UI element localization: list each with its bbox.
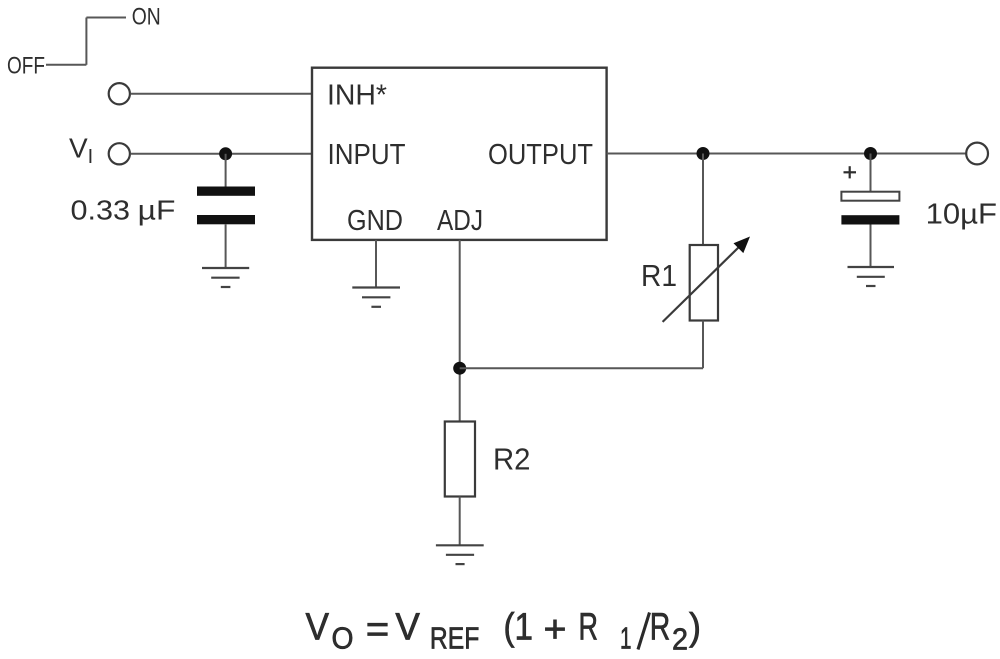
resistor R2 body (445, 422, 475, 497)
svg-text:R: R (579, 607, 599, 649)
svg-text:=: = (366, 609, 390, 651)
svg-text:0.33: 0.33 (71, 195, 131, 226)
wire switch OFF segment (46, 64, 86, 66)
wire C1 to ground (225, 224, 227, 268)
svg-text:REF: REF (430, 621, 479, 656)
svg-text:INPUT: INPUT (328, 139, 406, 171)
terminal VI input (109, 143, 130, 164)
ground R2 (436, 545, 484, 564)
formula slash R1/R2 (638, 613, 650, 650)
svg-text:OUTPUT: OUTPUT (488, 139, 593, 171)
ground U1 GND (352, 288, 400, 307)
svg-text:O: O (332, 621, 354, 656)
capacitor C1 bottom plate (197, 215, 255, 224)
svg-text:V: V (306, 607, 330, 649)
wire switch ON segment (86, 17, 126, 19)
wire INH terminal to U1 (131, 93, 313, 95)
node input junction (219, 147, 232, 160)
resistor R1 arrowhead (734, 237, 751, 254)
wire R1 bottom to ADJ node (vertical) (702, 321, 704, 369)
terminal VO output (966, 143, 988, 165)
svg-text:R1: R1 (641, 259, 677, 293)
svg-text:(1: (1 (504, 607, 534, 649)
node output junction at R1 (697, 147, 710, 160)
wire VI terminal to U1 INPUT (131, 153, 313, 155)
svg-text:µF: µF (138, 195, 176, 226)
wire switch vertical segment (85, 18, 87, 65)
resistor R1 body (690, 245, 718, 321)
svg-text:INH*: INH* (327, 80, 387, 112)
resistor R1 arrow shaft (663, 245, 741, 322)
svg-text:OFF: OFF (7, 53, 45, 80)
svg-text:10µF: 10µF (926, 198, 997, 230)
capacitor C1 top plate (197, 187, 255, 196)
svg-text:2: 2 (672, 622, 688, 657)
svg-text:ADJ: ADJ (437, 205, 483, 237)
svg-text:+: + (544, 609, 567, 651)
ground C1 (202, 268, 249, 287)
svg-text:GND: GND (347, 205, 403, 237)
wire output node to R1 (702, 154, 704, 246)
svg-text:I: I (88, 146, 94, 168)
wire U1 OUTPUT to output terminal (607, 153, 966, 155)
node output junction at C2 (864, 147, 877, 160)
capacitor C2 bottom plate (filled) (841, 215, 899, 224)
svg-text:V: V (69, 132, 88, 163)
wire U1 ADJ pin down to ADJ node and R2 (459, 240, 461, 422)
capacitor C2 plus sign (844, 166, 857, 178)
ground C2 (848, 267, 895, 286)
node ADJ junction (453, 362, 466, 375)
wire R1 bottom to ADJ node (horizontal) (460, 367, 703, 369)
svg-text:R: R (650, 607, 671, 649)
svg-text:1: 1 (620, 621, 632, 656)
svg-text:R2: R2 (493, 442, 531, 476)
wire C2 to ground (870, 225, 872, 268)
capacitor C2 top plate (hollow) (841, 192, 899, 201)
regulator U1 box (312, 68, 607, 240)
svg-text:): ) (689, 607, 701, 649)
wire R2 to ground (459, 497, 461, 546)
terminal INH input (109, 83, 130, 104)
svg-text:V: V (395, 607, 420, 649)
wire U1 GND pin to ground (375, 240, 377, 288)
wire input node to C1 (225, 154, 227, 187)
svg-text:ON: ON (132, 4, 161, 31)
wire output node to C2 (870, 154, 872, 192)
formula VO = VREF (1 + R1/R2) (306, 607, 702, 657)
